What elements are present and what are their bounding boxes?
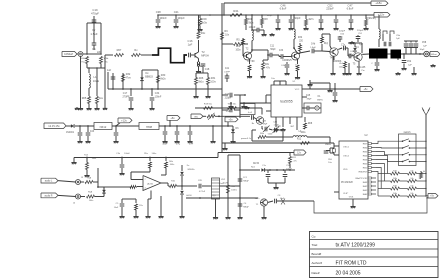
svg-text:7808: 7808: [146, 125, 153, 129]
svg-text:10uF: 10uF: [114, 207, 119, 209]
svg-text:220pF: 220pF: [326, 7, 334, 11]
svg-text:R08: R08: [308, 123, 313, 125]
svg-text:power5.1v: power5.1v: [241, 137, 252, 140]
svg-text:b6010: b6010: [186, 195, 191, 197]
svg-text:0.27uF: 0.27uF: [199, 191, 206, 193]
svg-text:220pF: 220pF: [267, 15, 274, 17]
svg-text:1.8pF: 1.8pF: [310, 47, 316, 49]
svg-text:100pF: 100pF: [177, 16, 185, 20]
svg-text:6MHz: 6MHz: [317, 100, 323, 102]
svg-text:RA4/TOCKI: RA4/TOCKI: [355, 177, 367, 180]
svg-text:100nF: 100nF: [124, 153, 130, 155]
svg-text:100nF: 100nF: [155, 96, 162, 99]
svg-text:10uH: 10uH: [223, 183, 228, 185]
svg-text:OSC2: OSC2: [343, 156, 350, 158]
svg-text:100Ks: 100Ks: [231, 190, 237, 192]
svg-text:N612: N612: [100, 125, 107, 129]
svg-text:R12: R12: [297, 139, 302, 141]
svg-text:C52: C52: [407, 61, 412, 63]
svg-text:C44: C44: [189, 144, 194, 146]
svg-text:0.5PF: 0.5PF: [224, 72, 230, 74]
svg-text:1pF: 1pF: [188, 43, 193, 47]
svg-text:L1: L1: [94, 75, 97, 79]
svg-text:10k: 10k: [410, 185, 413, 187]
svg-text:10k: 10k: [410, 178, 413, 180]
svg-text:C18: C18: [205, 68, 210, 71]
svg-text:4k7s: 4k7s: [308, 18, 314, 21]
svg-text:C2D: C2D: [198, 180, 203, 182]
svg-text:Date#: Date#: [312, 271, 320, 275]
svg-text:6.8uF: 6.8uF: [347, 7, 354, 11]
svg-text:9k3s: 9k3s: [201, 21, 207, 25]
svg-text:adr: adr: [277, 125, 281, 128]
svg-text:RB0/INT: RB0/INT: [359, 172, 368, 174]
svg-text:tx ATV 1200/1299: tx ATV 1200/1299: [336, 243, 376, 249]
svg-text:C41: C41: [225, 68, 230, 70]
svg-text:12.3V.15v: 12.3V.15v: [48, 124, 60, 128]
svg-text:W3n: W3n: [260, 133, 264, 135]
svg-text:PIC16F628: PIC16F628: [341, 182, 353, 184]
svg-text:1pF: 1pF: [423, 46, 427, 48]
svg-text:10MHZ: 10MHZ: [64, 52, 73, 56]
svg-text:C38: C38: [156, 10, 161, 14]
svg-text:R21: R21: [233, 9, 239, 13]
svg-text:tea5055: tea5055: [280, 100, 292, 104]
svg-text:ATout: ATout: [431, 53, 437, 56]
svg-text:10k: 10k: [410, 170, 413, 172]
svg-text:56pF: 56pF: [270, 49, 276, 51]
svg-text:W0x 50s: W0x 50s: [228, 104, 237, 106]
svg-text:9k1s: 9k1s: [249, 23, 255, 25]
svg-text:1pF: 1pF: [408, 65, 412, 67]
svg-text:W4601b: W4601b: [187, 169, 194, 171]
svg-text:Dn: Dn: [187, 165, 190, 167]
svg-text:10uF: 10uF: [162, 144, 168, 146]
svg-text:R1A: R1A: [87, 177, 92, 180]
svg-text:220pF: 220pF: [357, 30, 364, 32]
svg-text:R00: R00: [236, 46, 241, 48]
svg-text:39pF: 39pF: [263, 124, 268, 126]
svg-text:VDD: VDD: [343, 169, 348, 171]
svg-text:C43: C43: [90, 131, 95, 133]
svg-text:C4b: C4b: [311, 44, 316, 46]
svg-text:220pF: 220pF: [225, 97, 232, 100]
svg-text:R2x: R2x: [201, 32, 206, 35]
svg-text:C21: C21: [174, 10, 179, 14]
svg-text:1uF: 1uF: [107, 69, 112, 72]
svg-text:220pF: 220pF: [293, 17, 301, 20]
svg-text:Author#: Author#: [312, 261, 323, 265]
svg-text:MPSH: MPSH: [201, 54, 209, 58]
svg-text:C16: C16: [188, 39, 193, 43]
svg-text:MBqF: MBqF: [243, 207, 249, 209]
svg-text:4k: 4k: [423, 171, 425, 173]
svg-text:1N4001: 1N4001: [66, 132, 75, 134]
svg-text:MBqF: MBqF: [243, 181, 249, 183]
svg-text:R1x: R1x: [139, 205, 143, 207]
svg-text:470pF: 470pF: [91, 12, 99, 16]
svg-text:uA741: uA741: [147, 183, 154, 186]
svg-text:10uH: 10uH: [93, 79, 99, 83]
svg-text:R3b: R3b: [298, 37, 303, 39]
svg-text:4MHz: 4MHz: [325, 144, 331, 146]
svg-text:R07: R07: [117, 48, 122, 52]
svg-text:Titel:: Titel:: [312, 243, 319, 247]
svg-text:audio L: audio L: [45, 181, 53, 183]
svg-text:100s: 100s: [210, 81, 216, 84]
svg-text:R05: R05: [82, 97, 87, 100]
svg-text:39pF: 39pF: [307, 98, 313, 100]
svg-text:100s: 100s: [89, 200, 94, 202]
svg-text:47s: 47s: [293, 161, 296, 163]
svg-text:10uH: 10uH: [219, 183, 224, 185]
svg-text:bFr30: bFr30: [253, 162, 260, 165]
svg-text:C45: C45: [306, 95, 311, 97]
svg-text:audio R: audio R: [45, 196, 53, 198]
svg-text:8k2s: 8k2s: [160, 78, 166, 81]
svg-text:CLR*: CLR*: [343, 193, 348, 195]
svg-text:+12v: +12v: [121, 119, 127, 123]
svg-text:(b): (b): [213, 195, 216, 197]
svg-text:20 04 2005: 20 04 2005: [336, 271, 361, 277]
svg-text:C58: C58: [422, 42, 427, 44]
svg-text:C11: C11: [270, 45, 275, 48]
svg-text:6.8uF: 6.8uF: [280, 7, 287, 11]
svg-text:T2: T2: [201, 50, 205, 54]
svg-text:C33: C33: [279, 50, 284, 52]
svg-text:R5A: R5A: [88, 191, 93, 194]
svg-text:switch: switch: [404, 131, 412, 134]
svg-text:220pF: 220pF: [339, 31, 346, 33]
svg-text:100o: 100o: [235, 50, 241, 52]
svg-text:BFG135: BFG135: [357, 67, 366, 69]
svg-text:1uF: 1uF: [200, 65, 205, 68]
svg-text:+8v: +8v: [170, 116, 175, 120]
svg-text:1pF: 1pF: [396, 38, 400, 40]
svg-text:R29: R29: [202, 17, 207, 21]
svg-text:R18 50s: R18 50s: [204, 104, 213, 106]
svg-text:OSC1: OSC1: [343, 147, 350, 149]
svg-text:30Ks: 30Ks: [170, 164, 175, 166]
svg-text:sel: sel: [291, 126, 294, 128]
svg-text:30pF: 30pF: [420, 49, 425, 51]
svg-text:VCC: VCC: [295, 89, 300, 91]
svg-text:9k1s: 9k1s: [198, 81, 204, 84]
svg-text:bFR96/5: bFR96/5: [282, 59, 292, 62]
svg-text:bFY90: bFY90: [247, 60, 255, 63]
svg-text:9k0s: 9k0s: [92, 158, 96, 160]
svg-text:Board#: Board#: [312, 252, 322, 256]
svg-text:FIT ROM LTD: FIT ROM LTD: [336, 261, 367, 267]
svg-text:R(x): R(x): [324, 43, 329, 45]
svg-text:R(9b/4h): R(9b/4h): [366, 17, 376, 20]
svg-text:+5v: +5v: [228, 118, 233, 122]
svg-text:W0h: W0h: [81, 58, 86, 60]
svg-text:47os: 47os: [125, 77, 131, 80]
svg-text:+18v: +18v: [375, 1, 382, 5]
svg-text:0.uF: 0.uF: [248, 112, 253, 114]
svg-text:Co:: Co:: [312, 234, 317, 238]
svg-text:270PF: 270PF: [122, 96, 130, 99]
svg-text:C42: C42: [176, 144, 181, 146]
svg-text:4: 4: [144, 188, 145, 190]
svg-text:R1: R1: [92, 47, 96, 51]
svg-text:7: 7: [144, 179, 145, 181]
svg-text:BB833: BB833: [145, 76, 153, 79]
svg-text:10k: 10k: [410, 193, 413, 195]
svg-text:100s: 100s: [301, 132, 307, 134]
svg-text:VSS: VSS: [349, 197, 354, 199]
svg-text:1pF: 1pF: [359, 44, 363, 46]
svg-text:100nF: 100nF: [159, 16, 167, 20]
